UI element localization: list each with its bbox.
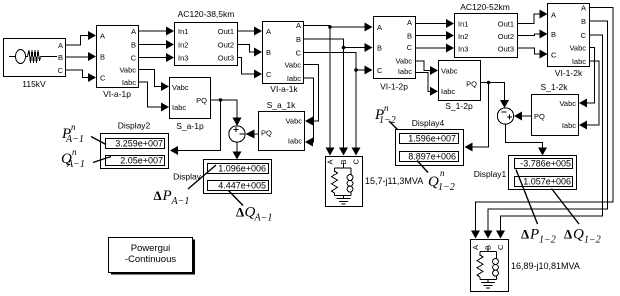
- load2 block 16,89-j10,81MVA: [471, 240, 509, 292]
- svg-text:1−2: 1−2: [438, 182, 455, 193]
- svg-text:Powergui: Powergui: [131, 243, 171, 254]
- svg-text:PQ: PQ: [261, 129, 272, 138]
- svg-text:Δ: Δ: [154, 188, 162, 203]
- svg-text:Vabc: Vabc: [172, 83, 189, 92]
- block Display4: [396, 118, 464, 166]
- svg-text:B: B: [407, 32, 412, 41]
- svg-text:VI-1-2k: VI-1-2k: [555, 68, 583, 78]
- wire Out1 to VI-1-2k A: [518, 10, 548, 24]
- svg-text:B: B: [551, 30, 556, 39]
- svg-text:Out3: Out3: [498, 45, 514, 54]
- svg-text:A: A: [296, 21, 301, 30]
- svg-text:C: C: [407, 43, 413, 52]
- svg-text:Δ: Δ: [236, 205, 244, 220]
- svg-text:1.057e+006: 1.057e+006: [523, 177, 571, 187]
- wire VI-1-2k B to load2 B: [484, 21, 608, 239]
- svg-text:B: B: [100, 53, 105, 62]
- block S_a-1p: [170, 78, 211, 132]
- svg-text:C: C: [377, 66, 383, 75]
- wire sum2 to Display1: [506, 125, 548, 156]
- block VI-a-1p: [97, 26, 139, 100]
- svg-text:C: C: [296, 49, 302, 58]
- svg-text:-3.786e+005: -3.786e+005: [520, 159, 571, 169]
- block S_1-2k: [532, 82, 579, 136]
- wire Out1 to VI-a-1k A: [238, 27, 263, 36]
- svg-text:P: P: [162, 188, 172, 204]
- label Pn 1-2: [374, 103, 407, 139]
- svg-text:Vabc: Vabc: [119, 66, 136, 75]
- svg-text:Vabc: Vabc: [284, 61, 301, 70]
- svg-text:PQ: PQ: [466, 80, 477, 89]
- wire VI-a-1p A to In1: [139, 27, 175, 36]
- wire VI-1-2k C to load2 C: [496, 35, 603, 239]
- svg-text:AC120-52km: AC120-52km: [460, 2, 510, 12]
- svg-text:VI-1-2p: VI-1-2p: [380, 82, 408, 92]
- svg-text:A−1: A−1: [254, 213, 273, 224]
- wire source B to VI-a-1p B: [66, 52, 97, 61]
- svg-text:A: A: [100, 32, 105, 41]
- block VI-1-2k: [548, 4, 590, 79]
- svg-text:Iabc: Iabc: [288, 137, 302, 146]
- svg-text:A: A: [551, 11, 556, 20]
- svg-text:C: C: [58, 66, 64, 75]
- svg-text:S_a-1p: S_a-1p: [176, 121, 204, 131]
- svg-text:-Continuous: -Continuous: [125, 254, 176, 265]
- svg-text:A: A: [377, 23, 382, 32]
- wire source C to VI-a-1p C: [66, 70, 97, 82]
- wire VI-a-1p C to In3: [139, 53, 175, 62]
- svg-text:Δ: Δ: [521, 227, 529, 242]
- svg-text:B: B: [266, 48, 271, 57]
- svg-text:16,89-j10,81MVA: 16,89-j10,81MVA: [511, 261, 580, 271]
- svg-text:2.05e+007: 2.05e+007: [120, 156, 163, 166]
- svg-text:A: A: [266, 27, 271, 36]
- wire VI-a-1k Iabc to S_a_1k Iabc: [304, 78, 314, 147]
- source 115kV: [4, 39, 66, 90]
- wire VI-a-1k C to VI-1-2p C (junction to load): [304, 53, 373, 75]
- wire S_1-2k PQ to sum2: [514, 112, 532, 121]
- svg-text:Out1: Out1: [498, 20, 514, 29]
- svg-text:Vabc: Vabc: [441, 67, 458, 76]
- block Powergui: [109, 238, 196, 275]
- wire VI-a-1k A to VI-1-2p A (junction to load): [304, 23, 373, 32]
- wire Out3 to VI-1-2k C: [518, 48, 548, 59]
- svg-text:Iabc: Iabc: [398, 67, 412, 76]
- wire sum1 to Display: [233, 142, 242, 159]
- svg-text:Out2: Out2: [498, 32, 514, 41]
- svg-text:A: A: [581, 4, 586, 13]
- svg-text:B: B: [581, 17, 586, 26]
- svg-text:Out2: Out2: [218, 41, 234, 50]
- label delta Q 1-2: [552, 189, 601, 246]
- wire VI-1-2p Iabc to S_1-2p Iabc: [416, 73, 439, 96]
- block AC120-38,5km: [175, 9, 238, 66]
- svg-text:C: C: [496, 244, 505, 250]
- svg-text:A−1: A−1: [171, 196, 190, 207]
- svg-text:C: C: [266, 70, 272, 79]
- svg-text:PQ: PQ: [196, 96, 207, 105]
- block VI-a-1k: [263, 21, 304, 94]
- svg-text:n: n: [72, 147, 77, 157]
- block AC120-52km: [455, 2, 518, 58]
- svg-text:Vabc: Vabc: [559, 99, 576, 108]
- svg-text:1−2: 1−2: [584, 235, 601, 246]
- block Display2: [101, 121, 169, 169]
- svg-text:3.259e+007: 3.259e+007: [115, 139, 163, 149]
- wire VI-1-2k A to load2 A: [471, 8, 613, 239]
- block Display (delta): [173, 160, 271, 194]
- svg-text:B: B: [377, 44, 382, 53]
- label Qn A-1: [61, 147, 111, 170]
- wire VI-1-2k Vabc to S_1-2k Vabc: [579, 48, 595, 108]
- svg-text:Iabc: Iabc: [562, 121, 576, 130]
- sum1: [229, 126, 245, 142]
- svg-text:C: C: [551, 51, 557, 60]
- svg-text:15,7-j11,3MVA: 15,7-j11,3MVA: [365, 176, 423, 186]
- svg-text:A: A: [407, 18, 412, 27]
- svg-text:In3: In3: [458, 45, 468, 54]
- svg-text:n: n: [440, 168, 445, 178]
- svg-text:Display: Display: [173, 172, 202, 182]
- wire Out3 to VI-a-1k C: [238, 58, 263, 79]
- svg-text:AC120-38,5km: AC120-38,5km: [178, 9, 235, 19]
- svg-text:n: n: [71, 122, 76, 132]
- svg-text:In2: In2: [178, 41, 188, 50]
- svg-text:S_1-2p: S_1-2p: [445, 101, 473, 111]
- wire Out2 to VI-a-1k B: [238, 45, 263, 57]
- svg-text:C: C: [100, 74, 106, 83]
- wire VI-a-1p Vabc to S_a-1p Vabc: [139, 70, 170, 92]
- svg-text:Display2: Display2: [118, 121, 151, 131]
- label delta P A-1: [154, 165, 217, 207]
- svg-text:A: A: [131, 27, 136, 36]
- label delta P 1-2: [516, 170, 556, 246]
- bus wires down to load1: [326, 27, 361, 156]
- wire VI-a-1k B to VI-1-2p B (junction to load): [304, 39, 373, 52]
- label delta Q A-1: [229, 191, 273, 224]
- svg-text:Δ: Δ: [564, 227, 572, 242]
- label Qn 1-2: [417, 161, 455, 194]
- svg-text:B: B: [58, 53, 63, 62]
- svg-text:1−2: 1−2: [539, 235, 556, 246]
- sum2: [497, 108, 513, 124]
- svg-text:C: C: [352, 159, 361, 165]
- svg-text:S_a_1k: S_a_1k: [267, 100, 297, 110]
- svg-text:A−1: A−1: [65, 134, 84, 145]
- svg-text:Iabc: Iabc: [172, 103, 186, 112]
- block S_a_1k: [259, 100, 305, 151]
- wire Out2 to VI-1-2k B: [518, 30, 548, 39]
- wire S_1-2p PQ to sum2 and Display4: [465, 81, 510, 152]
- svg-text:Display4: Display4: [412, 118, 445, 128]
- svg-text:In3: In3: [178, 54, 188, 63]
- svg-text:115kV: 115kV: [22, 79, 46, 89]
- svg-text:A−1: A−1: [66, 159, 85, 170]
- wire VI-1-2p Vabc to S_1-2p Vabc: [416, 61, 439, 75]
- svg-text:Iabc: Iabc: [572, 57, 586, 66]
- svg-text:C: C: [131, 54, 137, 63]
- wire VI-a-1k Vabc to S_a_1k Vabc: [304, 65, 319, 126]
- svg-text:A: A: [58, 41, 63, 50]
- svg-text:VI-a-1k: VI-a-1k: [270, 84, 298, 94]
- svg-text:P: P: [529, 227, 539, 243]
- svg-text:B: B: [131, 41, 136, 50]
- svg-text:1.596e+007: 1.596e+007: [408, 134, 456, 144]
- svg-text:Iabc: Iabc: [122, 78, 136, 87]
- svg-text:B: B: [296, 35, 301, 44]
- svg-text:In2: In2: [458, 32, 468, 41]
- wire source A to VI-a-1p A: [66, 31, 97, 45]
- label Pn A-1: [61, 122, 106, 145]
- svg-text:C: C: [581, 31, 587, 40]
- svg-text:8.897e+006: 8.897e+006: [408, 152, 456, 162]
- wire VI-1-2k Iabc to S_1-2k Iabc: [579, 61, 599, 130]
- block Display1: [474, 156, 577, 190]
- wire S_a-1p PQ to sum1 and Display2: [170, 98, 242, 155]
- svg-text:Out3: Out3: [218, 54, 234, 63]
- svg-text:Iabc: Iabc: [441, 87, 455, 96]
- svg-text:PQ: PQ: [534, 112, 545, 121]
- svg-text:4.447e+005: 4.447e+005: [218, 181, 266, 191]
- svg-text:In1: In1: [178, 27, 188, 36]
- svg-text:Q: Q: [573, 227, 584, 243]
- svg-text:Vabc: Vabc: [395, 57, 412, 66]
- svg-text:VI-a-1p: VI-a-1p: [103, 89, 131, 99]
- svg-text:1.096e+006: 1.096e+006: [218, 164, 266, 174]
- wire VI-a-1p B to In2: [139, 40, 175, 49]
- svg-text:A: A: [326, 159, 335, 164]
- svg-text:A: A: [471, 245, 480, 250]
- svg-text:n: n: [384, 103, 389, 113]
- svg-text:Vabc: Vabc: [285, 117, 302, 126]
- wire VI-1-2p C to In3: [416, 44, 455, 53]
- block VI-1-2p: [374, 17, 416, 92]
- svg-text:Out1: Out1: [218, 27, 234, 36]
- svg-text:Vabc: Vabc: [569, 44, 586, 53]
- wire VI-1-2p B to In2: [416, 31, 455, 40]
- svg-text:In1: In1: [458, 20, 468, 29]
- svg-text:Iabc: Iabc: [287, 74, 301, 83]
- block S_1-2p: [439, 61, 481, 112]
- wire VI-1-2p A to In1: [416, 19, 455, 28]
- wire VI-a-1p Iabc to S_a-1p Iabc: [139, 82, 170, 112]
- svg-text:Display1: Display1: [474, 169, 507, 179]
- load1 block 15,7-j11,3MVA: [326, 157, 363, 207]
- wire S_a_1k PQ to sum1: [246, 130, 259, 139]
- svg-text:S_1-2k: S_1-2k: [541, 82, 569, 92]
